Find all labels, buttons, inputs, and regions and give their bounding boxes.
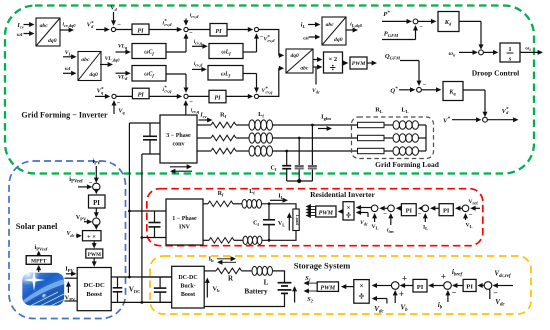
wire icv_q into wLf1 xyxy=(192,45,203,47)
wire icv_d down into sum xyxy=(185,19,187,22)
wire inverter output bottom xyxy=(203,239,209,241)
node phase C to Cf xyxy=(285,150,288,153)
svg-text:VL: VL xyxy=(372,224,379,231)
svg-text:Rf: Rf xyxy=(218,191,224,198)
svg-text:Boost: Boost xyxy=(86,291,103,298)
wire Vd* output xyxy=(487,119,513,121)
wire from wCf1 up into icv_d sum xyxy=(185,38,187,52)
wire sum to multiplier xyxy=(95,224,97,226)
node: summing junction r3 (IL) xyxy=(422,205,429,212)
node DC bus B to buck-boost rail xyxy=(141,301,144,304)
load inductor LL phase B xyxy=(393,134,399,143)
resistor Rf phase A xyxy=(211,122,236,128)
svg-text:V*q: V*q xyxy=(97,87,104,95)
svg-text:1 − Phase: 1 − Phase xyxy=(172,216,197,222)
wire V* into sum xyxy=(452,119,477,121)
abc-dq0 transform block for Icv xyxy=(36,18,60,46)
wire MPPT to iPVref label xyxy=(38,254,40,256)
multiply-divide block x2 xyxy=(324,52,343,73)
wire xyxy=(384,124,393,126)
wLf block 1 xyxy=(209,44,243,59)
node DC bus B to residential inverter xyxy=(141,236,144,239)
PI controller block (battery current loop) xyxy=(413,279,427,292)
Cf common rail xyxy=(287,180,313,182)
wire R to L xyxy=(242,270,253,272)
wire P sum to Kd xyxy=(418,20,432,22)
svg-text:MPPT: MPPT xyxy=(31,258,47,264)
node Cf bottom junction xyxy=(268,239,271,242)
phase wire C from converter xyxy=(197,150,211,152)
svg-text:−: − xyxy=(117,22,121,29)
node phase B to Cf xyxy=(298,137,301,140)
wire st2 to PI xyxy=(433,285,444,287)
svg-text:−: − xyxy=(452,288,457,297)
svg-text:PI: PI xyxy=(417,284,424,291)
dq0-abc inverse transform block xyxy=(286,49,313,73)
phase wire B from converter xyxy=(197,137,211,139)
wire PI to icvq sum xyxy=(149,95,177,97)
wire r2 to r1 xyxy=(384,207,388,209)
DC-DC Boost converter block xyxy=(77,268,111,311)
output wire iL_dq0 xyxy=(346,29,353,31)
svg-text:Vdc: Vdc xyxy=(312,88,320,95)
power flow arrows under converter xyxy=(170,166,187,168)
filter capacitor Cf phase C xyxy=(286,151,288,165)
wire buck-boost to R xyxy=(204,270,216,272)
DC bus vertical line B xyxy=(141,154,143,302)
wire Q_GFM into Q sum from above xyxy=(400,60,419,62)
Grid Forming Load dashed enclosure xyxy=(352,117,434,159)
DC-link capacitor of 1-phase inverter xyxy=(154,211,156,222)
svg-text:−: − xyxy=(418,211,422,218)
svg-text:VLq: VLq xyxy=(118,44,128,51)
svg-text:dq0: dq0 xyxy=(89,72,98,78)
node: summing junction st3 xyxy=(484,282,492,290)
load inductor LL phase A xyxy=(393,121,399,130)
svg-text:PI: PI xyxy=(443,208,450,215)
wCf block 2 xyxy=(132,66,166,82)
output wire icv_dq0 xyxy=(60,29,69,31)
arrow VL up xyxy=(288,217,290,230)
svg-text:ωt: ωt xyxy=(525,46,531,53)
svg-text:Droop Control: Droop Control xyxy=(472,69,520,78)
wire battery to bottom rail xyxy=(204,293,284,306)
wire VL into block xyxy=(63,56,72,58)
wire Icv into abc-dq0 xyxy=(24,24,30,26)
PWM block (solar) xyxy=(86,249,103,258)
wire wCf2 output down to icv_q sum xyxy=(166,73,186,75)
resistor Rf (residential) xyxy=(208,201,233,207)
svg-text:PI: PI xyxy=(214,95,221,102)
gate signal arrows from PWM to inverter xyxy=(310,206,315,208)
svg-text:VL,dq0: VL,dq0 xyxy=(105,56,121,63)
wire wt into iL block xyxy=(309,36,316,38)
wire P* into sum xyxy=(382,20,407,22)
resistor Rf phase B xyxy=(211,135,236,141)
node: P summing junction xyxy=(413,19,418,24)
wire PWM to DC-DC boost xyxy=(93,258,95,262)
svg-text:Vdc: Vdc xyxy=(66,231,74,238)
svg-text:−: − xyxy=(189,99,193,106)
svg-text:Storage System: Storage System xyxy=(294,261,351,271)
wire VLd into wCf2 xyxy=(116,72,127,74)
wire PI2 to Vcvd sum xyxy=(227,29,248,31)
resistor (residential bottom) xyxy=(209,238,234,244)
svg-text:+: + xyxy=(399,289,404,299)
DC-DC Buck-Boost converter block xyxy=(172,266,205,308)
PI controller block (Vd loop) xyxy=(132,24,149,35)
wire xyxy=(233,203,242,205)
battery symbol xyxy=(278,282,292,284)
arrow Igfm direction xyxy=(318,128,327,130)
svg-text:+: + xyxy=(402,274,407,284)
MPPT block xyxy=(26,256,51,265)
arrow battery voltage up xyxy=(294,291,296,303)
svg-text:PI: PI xyxy=(137,28,144,35)
Kd droop gain block xyxy=(438,12,459,32)
wCf block 1 xyxy=(132,44,166,59)
integrator block 1/s xyxy=(500,43,520,62)
svg-text:−: − xyxy=(419,24,423,31)
inductor (residential bottom) xyxy=(243,236,248,244)
svg-text:ωLf: ωLf xyxy=(221,50,231,57)
PWM block (storage) xyxy=(317,282,338,292)
load neutral connector xyxy=(425,125,427,151)
wire i_inv up into r2 xyxy=(390,218,392,225)
DC bus rail top to converter xyxy=(129,122,160,124)
wire PI2 to st2 xyxy=(457,285,463,287)
wire wLf2 output down to Vcvq sum xyxy=(243,73,257,75)
PWM block (GFM) xyxy=(350,57,367,69)
svg-text:−: − xyxy=(493,289,498,298)
wire Vdc into divider bottom xyxy=(386,299,388,304)
svg-text:Boost: Boost xyxy=(181,292,195,298)
svg-text:iL,dq0: iL,dq0 xyxy=(350,22,363,29)
DC link capacitor of 3-phase converter xyxy=(149,123,151,136)
boost DC-link capacitor xyxy=(117,277,119,287)
load resistor RL phase A xyxy=(358,122,385,127)
wire solar panel to MPPT xyxy=(38,270,40,272)
wire st3 to PI2 xyxy=(482,285,485,287)
svg-text:−: − xyxy=(469,212,473,219)
node DC bus A to residential inverter xyxy=(128,210,131,213)
svg-text:Load: Load xyxy=(295,215,300,226)
wire icv_d into wLf2 xyxy=(192,68,202,70)
svg-text:V*d: V*d xyxy=(87,21,94,29)
wire Vcvd to dq0-abc block xyxy=(259,30,279,56)
abc-dq0 transform block for iL xyxy=(322,17,346,45)
wire ib up into st2 xyxy=(447,295,449,302)
wire multiplier to PWM xyxy=(93,241,95,244)
abc-dq0 transform block for VL xyxy=(78,52,101,81)
wire iPVref into sum xyxy=(78,186,88,188)
wire PI to r2 xyxy=(400,207,403,209)
arrow current direction Icv xyxy=(199,119,208,121)
buck-boost left rail top xyxy=(142,276,172,278)
wire wt into VL block xyxy=(63,72,72,74)
node DC bus A to boost rail xyxy=(128,276,131,279)
svg-text:1: 1 xyxy=(508,46,511,53)
boost output rail bottom xyxy=(111,301,172,303)
svg-text:Solar panel: Solar panel xyxy=(16,221,58,231)
DC bus rail bottom from converter xyxy=(142,153,160,155)
svg-text:abc: abc xyxy=(326,22,335,28)
svg-text:icv,q: icv,q xyxy=(191,108,200,115)
svg-text:icv,d: icv,d xyxy=(190,13,199,20)
node Cf rail xyxy=(297,179,301,183)
svg-text:Cf: Cf xyxy=(253,221,259,228)
svg-text:VL: VL xyxy=(278,221,285,228)
svg-text:PI: PI xyxy=(93,200,100,207)
svg-text:−: − xyxy=(383,211,387,218)
wire x2div to PWM xyxy=(343,62,344,64)
svg-text:PI: PI xyxy=(466,284,473,291)
wire Vb up into st1 xyxy=(394,295,396,303)
PI controller block (DC voltage loop) xyxy=(463,279,476,291)
wire wLf1 output to Vcvd sum (up) xyxy=(243,51,257,53)
load resistor RL phase C xyxy=(358,148,385,153)
wire divide to PWM xyxy=(342,211,345,213)
inductor Lf phase A xyxy=(249,120,255,130)
wire P_GFM into sum from below xyxy=(382,39,416,41)
svg-text:PI: PI xyxy=(138,92,145,99)
svg-text:s: s xyxy=(508,55,512,62)
wire wt into abc-dq0 xyxy=(24,33,30,35)
svg-text:PI: PI xyxy=(215,28,222,35)
1-Phase inverter block xyxy=(166,199,203,245)
wire phase A to load xyxy=(273,124,358,126)
svg-text:Vdc: Vdc xyxy=(360,220,368,227)
filter capacitor Cf phase B xyxy=(298,138,300,165)
wire xyxy=(236,124,249,126)
node: summing junction Vcv_q output xyxy=(254,94,258,98)
svg-text:Grid Forming Load: Grid Forming Load xyxy=(375,160,440,169)
node: summing junction r2 (i_inv) xyxy=(388,205,395,212)
wire phase B to load xyxy=(273,137,358,139)
wire DC bus A to 1-phase inverter xyxy=(129,210,166,212)
wire inverter output top xyxy=(203,203,208,205)
wire sum to PI xyxy=(95,189,97,192)
arrow VPV measurement up xyxy=(67,286,69,293)
PI controller block (voltage loop residential) xyxy=(439,204,453,216)
wire Vdcref into st3 xyxy=(497,285,513,287)
svg-text:PWM: PWM xyxy=(88,252,101,258)
Kq droop gain block xyxy=(443,82,463,101)
wire L to battery xyxy=(273,271,285,282)
DC bus vertical line A xyxy=(128,123,130,277)
wire IL up into r3 xyxy=(424,218,426,222)
wire Vref into r4 xyxy=(475,207,480,209)
svg-text:Buck-: Buck- xyxy=(180,284,195,290)
wire VPV into sum xyxy=(84,221,88,223)
svg-text:VLd: VLd xyxy=(118,75,128,82)
wire sum to PI xyxy=(116,29,132,31)
wire from wLf1 up into Vcvd sum xyxy=(256,38,258,52)
svg-text:Battery: Battery xyxy=(244,288,268,296)
svg-text:abc: abc xyxy=(81,57,90,63)
node Cf top junction xyxy=(268,202,271,205)
svg-text:iinv: iinv xyxy=(387,228,394,235)
wire VL up into r4 xyxy=(465,218,467,220)
multiplier block + x xyxy=(83,231,102,241)
svg-text:abc: abc xyxy=(40,23,49,29)
svg-text:−: − xyxy=(117,100,121,107)
PI controller block (solar current loop) xyxy=(89,195,106,208)
PI controller block (icv_q loop) xyxy=(209,90,226,103)
node: summing junction r4 (Vref) xyxy=(462,205,469,212)
wire PI to Vcvq sum xyxy=(226,95,248,97)
multiply-divide block (residential) xyxy=(343,202,354,220)
wire dq0abc output 2 to x2div xyxy=(313,66,318,68)
wire Q sum to Kq xyxy=(421,89,436,91)
node: V summing junction xyxy=(483,117,488,122)
multiply-divide block (storage) xyxy=(354,280,369,304)
node: summing junction st2 xyxy=(444,282,452,290)
svg-text:INV: INV xyxy=(179,225,191,231)
svg-text:3 − Phase: 3 − Phase xyxy=(166,133,191,139)
inductor Lf phase B xyxy=(249,133,255,143)
wire sum to PI q2 xyxy=(188,95,209,97)
wire xyxy=(234,239,243,241)
svg-text:V*d: V*d xyxy=(502,108,510,116)
PWM block (residential) xyxy=(316,206,336,217)
wire solar panel to boost bottom xyxy=(65,300,78,302)
svg-text:dq0: dq0 xyxy=(48,38,57,44)
wire r3 to PI xyxy=(421,207,424,209)
section border: Residential Inverter (red dashed) xyxy=(147,189,483,246)
svg-text:L: L xyxy=(264,279,269,287)
wire Q* into sum xyxy=(399,89,411,91)
svg-text:icv,d: icv,d xyxy=(194,61,203,68)
wire phase C to load xyxy=(273,150,358,152)
wire sum to PI2 xyxy=(188,29,210,31)
wire Vcvq to dq0-abc block xyxy=(259,68,279,96)
svg-text:−: − xyxy=(189,30,193,37)
node: omega summing junction xyxy=(479,50,484,55)
wire xyxy=(419,124,427,126)
wire solar panel to boost top xyxy=(65,277,78,279)
wire PI2 to r3 xyxy=(435,207,439,209)
inductor Lf (residential) xyxy=(242,200,247,209)
wire xyxy=(236,150,249,152)
wire dq0abc output 1 to x2div xyxy=(313,59,318,61)
svg-text:icv,dq0: icv,dq0 xyxy=(63,22,77,29)
wire to load bottom xyxy=(262,231,296,241)
wire sum r1 to divider top xyxy=(361,207,372,209)
svg-text:PWM: PWM xyxy=(320,285,335,292)
3-Phase converter block xyxy=(160,115,197,163)
svg-text:VL: VL xyxy=(466,223,473,230)
svg-text:Grid Forming − Inverter: Grid Forming − Inverter xyxy=(21,111,108,120)
svg-text:Icv: Icv xyxy=(199,112,206,119)
svg-text:DC-DC: DC-DC xyxy=(178,275,197,281)
Load block (residential) xyxy=(293,209,299,231)
wire to load xyxy=(262,204,297,209)
inductor Lf phase C xyxy=(249,146,255,156)
wire PI to VPV sum xyxy=(95,208,97,213)
wire PI to st1 xyxy=(405,285,414,287)
svg-text:icv,q: icv,q xyxy=(194,39,203,46)
wire omega_t output xyxy=(520,51,538,53)
buck-boost DC-link capacitor xyxy=(159,277,161,288)
svg-text:× 2: × 2 xyxy=(328,56,337,63)
svg-text:ωLf: ωLf xyxy=(221,72,231,79)
svg-text:+ ×: + × xyxy=(87,234,96,241)
wire Vq* into sum xyxy=(95,95,106,97)
node: summing junction r1 (VL feedforward) xyxy=(371,205,378,212)
wire Vd down into sum xyxy=(113,12,115,21)
inductor L (battery) xyxy=(252,266,257,275)
wire omega_n into sum xyxy=(459,51,473,53)
svg-text:Residential Inverter: Residential Inverter xyxy=(310,190,375,199)
node: Q summing junction xyxy=(417,87,422,92)
wire Vd* into sum xyxy=(96,29,105,31)
bidirectional current arrows xyxy=(217,258,231,260)
svg-text:+: + xyxy=(441,272,446,282)
wire xyxy=(384,137,393,139)
wire omega sum to integrator xyxy=(483,51,493,53)
wire xyxy=(419,137,427,139)
buck-boost left rail bottom xyxy=(142,301,172,303)
svg-text:×: × xyxy=(359,282,363,290)
svg-text:PI: PI xyxy=(406,208,413,215)
wire Kd to omega sum xyxy=(459,20,481,22)
svg-text:Vref: Vref xyxy=(468,199,478,206)
svg-text:IL: IL xyxy=(423,225,428,232)
wire PWM output xyxy=(367,62,372,64)
node: summing junction Vcv_d output xyxy=(254,27,258,31)
boost output rail top xyxy=(111,276,172,278)
svg-text:ωt: ωt xyxy=(65,66,71,72)
wire Icv measurement up from converter xyxy=(185,105,187,115)
node: VPV summing junction xyxy=(93,218,100,225)
svg-text:Lf: Lf xyxy=(249,189,255,196)
svg-text:dq0: dq0 xyxy=(291,53,300,59)
svg-text:ωCf: ωCf xyxy=(144,72,154,79)
arrow IPV direction xyxy=(66,273,72,275)
svg-text:dq0: dq0 xyxy=(334,37,343,43)
svg-text:abc: abc xyxy=(300,65,309,71)
svg-text:conv: conv xyxy=(173,142,185,148)
resistor Rf phase C xyxy=(211,148,236,154)
wire PI to icvd sum xyxy=(149,29,177,31)
wire Vdc into divider xyxy=(367,213,369,218)
node phase A to Cf xyxy=(311,124,314,127)
wire xyxy=(419,150,427,152)
wire iPV down into sum xyxy=(95,166,97,178)
load inductor LL phase C xyxy=(393,147,399,156)
svg-text:PWM: PWM xyxy=(319,210,334,216)
wire VL up into r1 xyxy=(374,218,376,222)
wire VLq into wCf1 xyxy=(116,51,127,53)
wire xyxy=(236,137,249,139)
wire Vdc up into st3 xyxy=(489,290,491,300)
wire Kq to V sum xyxy=(463,89,485,91)
node: iPV summing junction xyxy=(93,183,100,190)
wire sum to PI q1 xyxy=(116,95,132,97)
svg-text:×: × xyxy=(347,204,351,211)
section border: Storage System (orange dashed) xyxy=(150,256,531,314)
wire Vdc into multiplier xyxy=(76,235,77,237)
wire Vdc up to x2div input xyxy=(315,67,317,85)
wire DC bus B to 1-phase inverter xyxy=(142,237,166,239)
svg-text:ωt: ωt xyxy=(303,36,309,42)
node: summing junction icv_q xyxy=(184,94,188,98)
load resistor RL phase B xyxy=(358,135,385,140)
arrow Vb up xyxy=(206,282,208,297)
filter capacitor Cf residential xyxy=(268,204,270,220)
filter capacitor Cf phase A xyxy=(311,125,313,165)
